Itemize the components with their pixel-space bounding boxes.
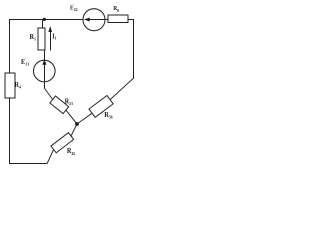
wire through E'11 circle xyxy=(44,61,46,82)
source E'11 (circle, middle-left) xyxy=(34,60,56,82)
node dot top junction xyxy=(43,18,46,21)
wire R45 to bottom bend xyxy=(47,149,53,163)
wire top horizontal left segment xyxy=(9,19,83,21)
resistor R4 (vertical, left side) xyxy=(5,73,15,98)
wire R23 to center node xyxy=(66,110,77,124)
wire diagonal E'11 to R23 xyxy=(44,88,52,100)
wire diagonal top-right corner to R56 xyxy=(110,78,133,99)
wire R56 to center node xyxy=(77,113,92,124)
arrow line inside E'22 xyxy=(85,19,105,21)
arrowhead inside E'22 pointing left xyxy=(84,18,90,22)
svg-text:E′22: E′22 xyxy=(70,2,78,12)
wire between E'22 circle and R6 xyxy=(105,19,109,21)
wire bottom horizontal xyxy=(9,163,48,165)
wire R1 bottom to E'11 circle xyxy=(44,50,46,61)
svg-text:I1: I1 xyxy=(52,33,56,41)
resistor R1 (vertical, top middle) xyxy=(38,28,45,50)
wire right vertical xyxy=(133,19,135,79)
svg-text:R45: R45 xyxy=(67,147,75,156)
resistor R56 (diagonal right) xyxy=(89,96,113,118)
wire left vertical xyxy=(9,19,11,164)
current arrow I1 head xyxy=(48,26,52,32)
current arrow I1 line xyxy=(50,29,52,51)
source E'22 (circle, top) xyxy=(83,9,105,31)
svg-text:R6: R6 xyxy=(113,6,119,13)
arrowhead inside E'11 pointing up xyxy=(42,59,46,64)
svg-text:R1: R1 xyxy=(30,32,36,41)
svg-text:R4: R4 xyxy=(14,81,20,90)
svg-text:R56: R56 xyxy=(104,111,112,120)
wire branch top stub xyxy=(42,20,44,29)
resistor R45 (diagonal bottom-left) xyxy=(51,133,74,153)
resistor R6 (horizontal, top right) xyxy=(108,15,128,22)
resistor R23 (diagonal upper-left) xyxy=(50,96,69,114)
svg-text:E′11: E′11 xyxy=(21,57,29,67)
svg-text:R23: R23 xyxy=(65,98,73,106)
wire center node to R45 xyxy=(71,124,77,136)
wire E'11 bottom stub xyxy=(44,82,46,89)
node dot center junction xyxy=(75,122,79,126)
wire R6 to top-right corner xyxy=(128,19,134,21)
